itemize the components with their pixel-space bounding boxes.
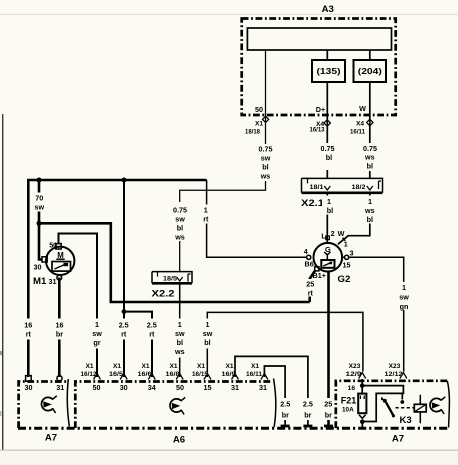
svg-text:0.75: 0.75 <box>173 205 187 214</box>
svg-text:16/11: 16/11 <box>246 371 262 378</box>
svg-text:sw: sw <box>261 154 271 163</box>
svg-text:1: 1 <box>327 197 331 206</box>
svg-text:1: 1 <box>204 206 208 215</box>
svg-text:16/11: 16/11 <box>350 128 365 135</box>
svg-text:X1: X1 <box>85 363 93 370</box>
svg-text:(204): (204) <box>358 67 382 76</box>
svg-text:0.75: 0.75 <box>259 145 273 154</box>
svg-text:2.5: 2.5 <box>303 400 313 409</box>
svg-text:15: 15 <box>343 260 351 269</box>
svg-text:18/5: 18/5 <box>163 276 177 283</box>
svg-text:16/12: 16/12 <box>81 371 97 378</box>
svg-text:30: 30 <box>25 383 33 392</box>
svg-text:br: br <box>282 411 289 420</box>
svg-text:16: 16 <box>348 385 356 392</box>
svg-text:ws: ws <box>364 153 375 162</box>
svg-text:ws: ws <box>174 232 185 241</box>
svg-text:31: 31 <box>259 383 267 392</box>
svg-text:rt: rt <box>121 330 127 339</box>
svg-text:31: 31 <box>56 383 64 392</box>
svg-text:50: 50 <box>255 105 263 114</box>
svg-text:bl: bl <box>177 338 183 347</box>
svg-text:br: br <box>56 330 63 339</box>
svg-text:12/12: 12/12 <box>385 371 403 378</box>
svg-text:br: br <box>325 411 332 420</box>
svg-text:A6: A6 <box>173 435 185 446</box>
svg-text:1: 1 <box>344 240 348 249</box>
svg-text:16: 16 <box>56 321 64 330</box>
svg-text:50: 50 <box>176 383 184 392</box>
svg-text:1: 1 <box>206 320 210 329</box>
svg-text:1: 1 <box>178 320 182 329</box>
svg-text:X1: X1 <box>197 363 205 370</box>
svg-text:2.5: 2.5 <box>280 400 290 409</box>
svg-text:25: 25 <box>306 280 314 289</box>
svg-text:D+: D+ <box>316 105 325 114</box>
svg-text:rt: rt <box>26 330 32 339</box>
svg-text:ws: ws <box>364 206 375 215</box>
svg-text:10A: 10A <box>342 406 354 413</box>
svg-text:1: 1 <box>368 197 372 206</box>
svg-text:gr: gr <box>93 338 100 347</box>
svg-text:A7: A7 <box>45 433 57 444</box>
svg-text:X1: X1 <box>251 363 259 370</box>
svg-text:0.75: 0.75 <box>321 144 335 153</box>
svg-text:bl: bl <box>367 162 373 171</box>
svg-text:W: W <box>338 229 345 238</box>
svg-text:X23: X23 <box>349 363 361 370</box>
svg-text:G2: G2 <box>338 274 351 285</box>
svg-text:bl: bl <box>262 163 268 172</box>
svg-text:A7: A7 <box>392 434 404 445</box>
svg-text:sw: sw <box>175 214 185 223</box>
svg-text:sw: sw <box>399 293 409 302</box>
svg-text:31: 31 <box>49 277 57 286</box>
svg-text:34: 34 <box>148 383 156 392</box>
svg-text:bl: bl <box>204 338 210 347</box>
svg-text:X1: X1 <box>225 363 233 370</box>
svg-text:W: W <box>359 104 366 113</box>
svg-text:B6: B6 <box>305 260 314 269</box>
svg-text:bl: bl <box>177 223 183 232</box>
svg-text:2.5: 2.5 <box>119 321 129 330</box>
svg-text:F21: F21 <box>341 396 357 406</box>
svg-text:sw: sw <box>203 329 213 338</box>
svg-text:M: M <box>57 251 64 260</box>
svg-text:31: 31 <box>231 383 239 392</box>
svg-text:X23: X23 <box>389 363 401 370</box>
svg-text:sw: sw <box>92 329 102 338</box>
svg-text:B1+: B1+ <box>313 271 326 280</box>
svg-text:L: L <box>321 231 326 240</box>
svg-text:X1: X1 <box>113 363 121 370</box>
svg-text:sw: sw <box>175 329 185 338</box>
svg-text:1: 1 <box>402 283 406 292</box>
svg-text:gn: gn <box>400 302 409 311</box>
svg-text:50: 50 <box>49 240 57 249</box>
svg-text:bl: bl <box>367 215 373 224</box>
svg-text:A3: A3 <box>322 4 334 15</box>
svg-text:50: 50 <box>93 383 101 392</box>
svg-text:16: 16 <box>24 321 32 330</box>
svg-text:30: 30 <box>120 383 128 392</box>
svg-text:25: 25 <box>324 400 332 409</box>
svg-text:18/18: 18/18 <box>245 129 260 136</box>
svg-text:1: 1 <box>95 320 99 329</box>
svg-text:rt: rt <box>149 330 155 339</box>
svg-text:bl: bl <box>327 206 333 215</box>
svg-text:bl: bl <box>326 153 332 162</box>
svg-text:(135): (135) <box>317 67 341 76</box>
svg-text:2: 2 <box>331 229 335 238</box>
svg-text:M1: M1 <box>33 276 47 287</box>
svg-text:2.5: 2.5 <box>147 321 157 330</box>
svg-text:X2.2: X2.2 <box>152 289 175 300</box>
svg-text:rt: rt <box>308 289 314 298</box>
svg-text:4: 4 <box>304 247 308 256</box>
svg-text:18/2: 18/2 <box>352 184 366 191</box>
svg-text:X1: X1 <box>141 363 149 370</box>
svg-text:15: 15 <box>204 383 212 392</box>
svg-text:ws: ws <box>174 347 185 356</box>
svg-text:X4: X4 <box>356 121 364 128</box>
svg-text:X2.1: X2.1 <box>301 198 325 209</box>
svg-text:sw: sw <box>35 203 45 212</box>
svg-text:30: 30 <box>34 263 42 272</box>
svg-text:ws: ws <box>260 172 271 181</box>
svg-text:70: 70 <box>35 194 43 203</box>
svg-text:18/1: 18/1 <box>310 184 324 191</box>
svg-text:K3: K3 <box>400 415 412 426</box>
svg-text:X1: X1 <box>169 363 177 370</box>
svg-text:br: br <box>304 411 311 420</box>
svg-text:X1: X1 <box>255 121 263 128</box>
svg-text:3: 3 <box>350 249 354 258</box>
svg-text:16/13: 16/13 <box>310 127 325 134</box>
svg-text:rt: rt <box>203 214 209 223</box>
